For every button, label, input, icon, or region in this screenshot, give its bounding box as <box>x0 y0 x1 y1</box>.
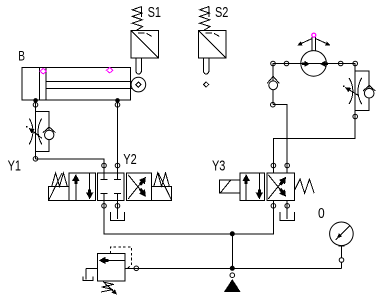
check valve (left branch) <box>267 76 279 89</box>
svg-text:Y3: Y3 <box>212 157 225 174</box>
Y3 left square arrows <box>243 173 264 200</box>
corner port circles <box>271 61 276 66</box>
Y3 solenoid <box>220 180 240 193</box>
wire check valve to Y3 port B <box>273 105 287 166</box>
wire valve P port to supply <box>104 206 273 234</box>
svg-text:Y1: Y1 <box>8 157 21 174</box>
flow control valve (cylinder branch) <box>26 103 56 159</box>
relief valve outlet port <box>134 266 139 271</box>
valve Y3 body <box>240 173 295 200</box>
wire flow control to valve port A <box>36 159 105 166</box>
svg-text:B: B <box>18 48 25 64</box>
left square arrows <box>72 173 93 200</box>
pressure source <box>225 273 240 291</box>
wire cylinder port B down to valve <box>117 100 119 165</box>
Y3 spring <box>295 179 315 193</box>
Y3 port circles <box>271 163 276 168</box>
center square blocked ports <box>101 173 122 200</box>
cylinder port dot A <box>34 99 38 103</box>
svg-text:S1: S1 <box>148 3 161 20</box>
Y3 right square crossed arrows <box>268 175 289 199</box>
junction dots <box>230 232 234 236</box>
check valve bottom port <box>271 102 276 107</box>
hydraulic motor <box>296 33 331 76</box>
cylinder B body <box>22 67 134 100</box>
valve Y1/Y2 port circles <box>102 163 107 168</box>
pressure gauge <box>330 222 354 268</box>
svg-text:S2: S2 <box>215 3 228 20</box>
pressure relief valve <box>83 247 132 296</box>
motor port circles <box>284 61 289 66</box>
flow control bottom port <box>33 157 38 162</box>
wire motor top line <box>273 64 355 117</box>
limit switch S1 <box>131 7 159 92</box>
limit switch S2 <box>199 7 227 88</box>
flow control valve (right branch) <box>343 71 376 110</box>
cylinder port dot B <box>116 99 120 103</box>
left actuator (solenoid + spring) <box>49 173 69 201</box>
flow control top port <box>33 103 38 108</box>
right square crossed arrows <box>128 175 149 199</box>
Y3 tank symbol <box>280 208 294 220</box>
svg-text:0: 0 <box>318 205 325 222</box>
supply line <box>125 267 342 269</box>
wire right branch to Y3 port A <box>273 117 355 166</box>
cylinder port B circle <box>115 103 120 108</box>
position marker diamond (cylinder right) <box>106 68 113 73</box>
valve Y1/Y2 body <box>69 173 152 200</box>
svg-text:Y2: Y2 <box>123 150 136 167</box>
valve Y1/Y2 tank symbol <box>110 208 124 220</box>
flow control bottom port <box>353 114 358 119</box>
position marker diamond (piston) <box>40 69 47 74</box>
gauge port circle <box>339 258 344 263</box>
riser Y valves to supply <box>231 234 233 268</box>
right actuator (solenoid + spring) <box>152 173 172 201</box>
